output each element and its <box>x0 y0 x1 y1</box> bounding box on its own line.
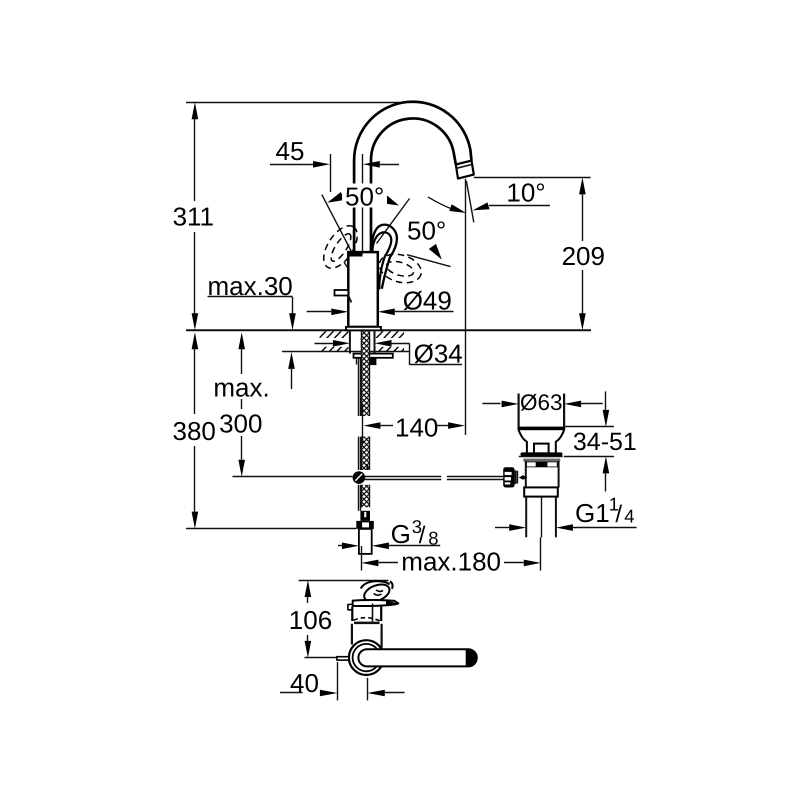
svg-text:max.: max. <box>213 373 269 403</box>
svg-text:G: G <box>391 519 411 549</box>
svg-text:106: 106 <box>289 605 332 635</box>
svg-text:10°: 10° <box>506 177 545 207</box>
svg-text:300: 300 <box>219 409 262 439</box>
svg-text:50°: 50° <box>345 181 384 211</box>
svg-text:max.180: max.180 <box>401 547 501 577</box>
svg-text:34-51: 34-51 <box>573 428 637 456</box>
svg-text:4: 4 <box>624 505 634 526</box>
svg-text:/: / <box>615 501 622 528</box>
svg-text:209: 209 <box>562 241 605 271</box>
svg-text:380: 380 <box>173 416 216 446</box>
svg-text:/: / <box>419 522 426 549</box>
svg-text:50°: 50° <box>407 216 446 246</box>
svg-text:Ø63: Ø63 <box>520 390 563 415</box>
svg-text:Ø34: Ø34 <box>414 338 463 368</box>
svg-text:140: 140 <box>395 412 438 442</box>
svg-text:8: 8 <box>428 528 438 549</box>
svg-text:45: 45 <box>276 136 305 166</box>
svg-text:311: 311 <box>173 201 214 231</box>
svg-text:Ø49: Ø49 <box>403 286 452 316</box>
svg-text:40: 40 <box>290 668 319 698</box>
svg-text:G1: G1 <box>575 498 610 528</box>
